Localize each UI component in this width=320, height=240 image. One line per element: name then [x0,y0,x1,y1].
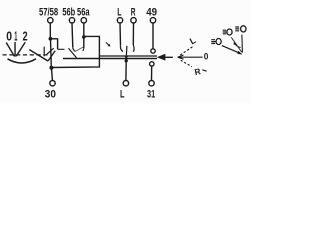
svg-text:1: 1 [14,28,17,43]
svg-text:L: L [117,7,122,19]
svg-text:31: 31 [147,89,155,101]
svg-text:56b: 56b [62,7,75,19]
svg-text:49: 49 [146,7,157,19]
svg-text:30: 30 [45,89,56,101]
svg-text:0: 0 [204,52,209,62]
svg-text:56a: 56a [77,7,90,19]
svg-text:L: L [120,89,125,101]
svg-text:0: 0 [6,28,12,43]
svg-text:R: R [131,7,136,19]
svg-text:57/58: 57/58 [39,7,58,19]
svg-text:2: 2 [23,28,28,43]
